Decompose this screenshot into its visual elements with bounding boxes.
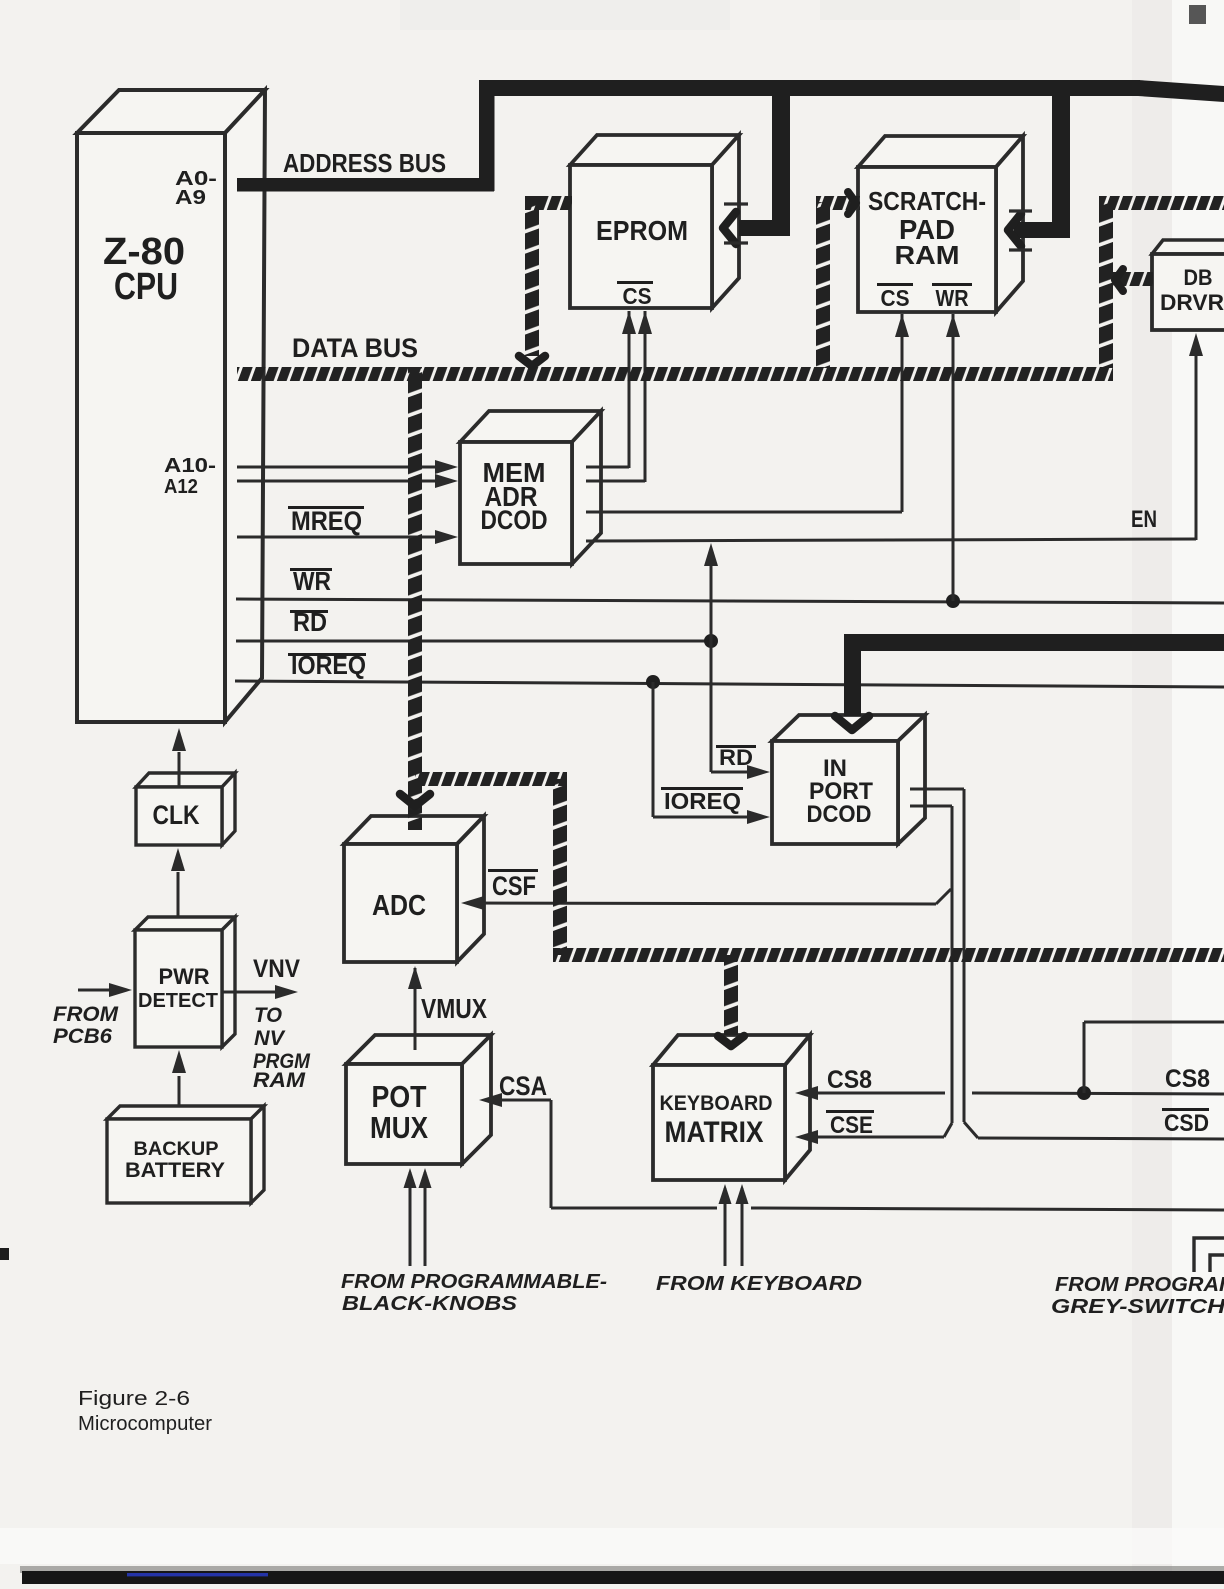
arrowhead RAM CS xyxy=(895,314,909,337)
wire MEM ADR DCOD out1 elbow xyxy=(586,466,629,469)
svg-text:BACKUP: BACKUP xyxy=(134,1139,219,1160)
arrowhead keyboard 2 xyxy=(736,1184,749,1204)
svg-text:FROM: FROM xyxy=(53,1003,119,1026)
wire IN PORT out2 xyxy=(910,805,952,808)
arrowhead RAM WR xyxy=(946,314,960,337)
wire IOREQ xyxy=(235,681,1224,687)
address bus thick segment from CPU xyxy=(237,178,494,192)
svg-text:RAM: RAM xyxy=(253,1069,306,1092)
arrowhead CSA into POT MUX xyxy=(479,1093,502,1107)
svg-text:RD: RD xyxy=(293,607,327,637)
scan smudge top 2 xyxy=(820,0,1020,20)
RAM entry tick lower xyxy=(1009,248,1032,251)
arrowhead into CLK bottom xyxy=(171,848,185,871)
wire from keyboard 2 xyxy=(741,1188,744,1266)
wire CS8 left of break xyxy=(800,1092,945,1095)
wire CS to SCRATCH-PAD RAM horizontal xyxy=(586,511,902,514)
wire EN horizontal xyxy=(586,539,1196,541)
hatched branch DB DRVR vertical xyxy=(1099,202,1113,368)
IO select bus drop xyxy=(844,634,861,716)
RAM entry tick upper xyxy=(1009,209,1032,212)
junction dot IOREQ to IN PORT DCOD xyxy=(646,675,660,689)
hatched branch KEYBOARD vertical xyxy=(724,955,738,1035)
svg-text:NV: NV xyxy=(254,1027,286,1050)
arrowhead into PWR DETECT bottom xyxy=(172,1050,186,1073)
svg-text:IOREQ: IOREQ xyxy=(291,650,366,680)
wire RD drop xyxy=(710,641,713,772)
hatched arrow into data bus from EPROM xyxy=(519,356,545,366)
wire CSE vertical xyxy=(951,806,954,1123)
EPROM entry tick upper xyxy=(724,202,748,205)
hatched elbow to lower bus horizontal xyxy=(415,772,567,786)
wire CSD to page edge xyxy=(978,1138,1224,1139)
svg-text:FROM KEYBOARD: FROM KEYBOARD xyxy=(656,1273,862,1295)
svg-text:DATA BUS: DATA BUS xyxy=(292,333,418,363)
svg-text:CS: CS xyxy=(881,285,910,311)
scan light band right edge xyxy=(1172,0,1224,1584)
svg-text:DETECT: DETECT xyxy=(138,990,218,1012)
svg-text:CSD: CSD xyxy=(1164,1110,1209,1137)
svg-text:RAM: RAM xyxy=(895,240,960,270)
svg-text:MATRIX: MATRIX xyxy=(665,1116,764,1149)
wire WR bus line xyxy=(236,599,1224,603)
address bus top run xyxy=(479,80,1140,96)
svg-text:WR: WR xyxy=(293,566,331,596)
block ADC xyxy=(344,816,484,844)
wire CSA horizontal left of keyboard lines xyxy=(551,1207,717,1210)
address bus branch down to RAM xyxy=(1052,92,1070,238)
IO select thick bus to IN PORT DCOD xyxy=(844,634,1224,651)
svg-text:EN: EN xyxy=(1131,506,1157,533)
arrowhead A10-A12 upper into MEM ADR DCOD xyxy=(435,460,458,474)
block Z-80 CPU xyxy=(77,90,265,133)
top right corner scan mark xyxy=(1189,5,1206,24)
address bus elbow into RAM xyxy=(1014,222,1070,238)
svg-text:BATTERY: BATTERY xyxy=(125,1159,225,1182)
left edge tick xyxy=(0,1248,9,1260)
EPROM entry tick lower xyxy=(724,241,748,244)
address bus top run tail (slight scan kink) xyxy=(1138,80,1224,102)
wire MREQ xyxy=(237,536,447,539)
svg-text:CSE: CSE xyxy=(830,1112,873,1139)
hatched branch RAM elbow xyxy=(816,196,860,210)
block CLK xyxy=(136,773,235,787)
wire FROM PCB6 xyxy=(78,989,122,992)
arrowhead keyboard 1 xyxy=(719,1184,732,1204)
svg-text:CSA: CSA xyxy=(499,1071,547,1101)
hatched branch RAM vertical xyxy=(816,202,830,368)
wire IN PORT out1 xyxy=(910,788,964,791)
thick arrow into SCRATCH-PAD RAM xyxy=(1008,214,1021,246)
junction dot RD to IN PORT DCOD xyxy=(704,634,718,648)
wire IOREQ drop xyxy=(652,682,655,817)
block DB DRVR (clipped at page edge) xyxy=(1152,240,1224,254)
wire VNV out xyxy=(222,991,288,994)
wire PWR DETECT to CLK xyxy=(177,872,180,917)
svg-text:CSF: CSF xyxy=(492,871,536,901)
svg-text:DCOD: DCOD xyxy=(481,505,548,535)
wire EPROM CS line outer xyxy=(644,311,647,482)
svg-text:BLACK-KNOBS: BLACK-KNOBS xyxy=(342,1293,518,1315)
wire CS to SCRATCH-PAD RAM vertical xyxy=(901,314,904,512)
arrowhead knobs 2 xyxy=(419,1168,432,1188)
wire A10-A12 lower xyxy=(237,480,447,483)
hatched branch ADC vertical xyxy=(408,367,422,830)
svg-text:PCB6: PCB6 xyxy=(53,1025,112,1048)
wire CLK to CPU xyxy=(178,752,181,786)
arrowhead A10-A12 lower into MEM ADR DCOD xyxy=(435,474,458,488)
svg-text:CS: CS xyxy=(623,283,652,309)
wire CSE to KEYBOARD xyxy=(800,1136,944,1139)
hatched arrow into KEYBOARD MATRIX xyxy=(718,1036,744,1046)
wire CS8 right of break xyxy=(972,1093,1224,1094)
svg-text:EPROM: EPROM xyxy=(596,215,688,246)
data bus from CPU (hatched) xyxy=(237,367,1113,381)
wire EPROM CS line inner xyxy=(628,311,631,468)
svg-text:TO: TO xyxy=(254,1004,282,1027)
hatched elbow to lower bus vertical xyxy=(553,779,567,955)
block KEYBOARD MATRIX xyxy=(653,1035,810,1065)
wire CSE flare xyxy=(944,1123,952,1137)
svg-text:WR: WR xyxy=(936,285,969,311)
wire CSF jog diagonal xyxy=(936,889,951,904)
wire RD xyxy=(236,640,712,643)
scan bar bottom xyxy=(22,1571,1224,1584)
arrowhead IOREQ into IN PORT DCOD xyxy=(747,810,770,824)
svg-text:A12: A12 xyxy=(164,476,198,498)
arrowhead MREQ into MEM ADR DCOD xyxy=(435,530,458,544)
arrowhead RD riser up xyxy=(704,543,718,566)
wire CSA into POT MUX xyxy=(484,1099,551,1102)
wire CS8 branch to page edge xyxy=(1084,1021,1224,1024)
svg-text:MUX: MUX xyxy=(370,1110,428,1145)
wire RD into IN PORT DCOD xyxy=(711,771,760,774)
block BACKUP BATTERY xyxy=(107,1106,264,1119)
arrowhead EN into DB DRVR xyxy=(1189,333,1203,356)
wire A10-A12 upper xyxy=(237,466,447,469)
lower data bus (hatched) to page edge xyxy=(553,948,1224,962)
svg-text:A10-: A10- xyxy=(164,455,216,477)
svg-text:GREY-SWITCH: GREY-SWITCH xyxy=(1051,1296,1224,1318)
blue artifact line xyxy=(127,1573,268,1576)
address bus vertical riser xyxy=(479,80,495,191)
arrowhead CS8 into KEYBOARD xyxy=(795,1086,818,1100)
arrowhead RD into IN PORT DCOD xyxy=(747,765,770,779)
thick arrow into IN PORT DCOD xyxy=(835,716,869,730)
svg-text:ADC: ADC xyxy=(372,890,426,922)
wire from black knobs 2 xyxy=(424,1172,427,1266)
arrowhead EPROM CS inner xyxy=(622,311,636,334)
hatched arrow into SCRATCH-PAD RAM xyxy=(848,192,856,214)
scan shadow band right xyxy=(1132,0,1172,1584)
block SCRATCH-PAD RAM xyxy=(858,136,1023,167)
svg-text:VMUX: VMUX xyxy=(421,993,487,1024)
hatched branch EPROM elbow xyxy=(525,196,572,210)
svg-text:ADDRESS BUS: ADDRESS BUS xyxy=(283,148,446,178)
svg-text:IOREQ: IOREQ xyxy=(664,788,741,814)
wire CSF horizontal xyxy=(466,903,936,904)
wire CSA vertical xyxy=(550,1100,553,1208)
wire IOREQ into IN PORT DCOD xyxy=(653,816,760,819)
arrowhead knobs 1 xyxy=(404,1168,417,1188)
svg-text:FROM PROGRAMMABLE-: FROM PROGRAMMABLE- xyxy=(341,1271,607,1293)
wire CS8 branch vertical xyxy=(1083,1022,1086,1093)
svg-text:DCOD: DCOD xyxy=(807,801,872,828)
svg-text:KEYBOARD: KEYBOARD xyxy=(660,1092,773,1115)
svg-text:MREQ: MREQ xyxy=(291,506,362,536)
hatched branch EPROM vertical xyxy=(525,196,539,356)
block PWR DETECT xyxy=(135,917,235,930)
address bus elbow into EPROM xyxy=(739,220,790,236)
svg-text:CS8: CS8 xyxy=(1165,1065,1210,1093)
svg-text:SCRATCH-: SCRATCH- xyxy=(868,186,986,216)
hatched arrow into ADC xyxy=(400,794,430,806)
arrowhead CSE into KEYBOARD xyxy=(795,1130,818,1144)
svg-text:DRVR: DRVR xyxy=(1160,290,1224,315)
bright strip above bottom bar xyxy=(0,1528,1224,1564)
scan smudge top xyxy=(400,0,730,30)
arrowhead EPROM CS outer xyxy=(638,311,652,334)
junction dot CS8 branch xyxy=(1077,1086,1091,1100)
svg-text:A9: A9 xyxy=(175,187,206,209)
block EPROM xyxy=(570,135,739,165)
wire VMUX xyxy=(414,968,417,1050)
arrowhead into CPU bottom xyxy=(172,728,186,751)
hatched branch DB DRVR top elbow xyxy=(1099,196,1224,210)
wire EN vertical xyxy=(1195,344,1198,540)
scan bar soft top xyxy=(20,1566,1224,1573)
junction dot WR to SCRATCH-PAD RAM xyxy=(946,594,960,608)
svg-text:VNV: VNV xyxy=(253,955,300,983)
wire RD riser xyxy=(710,556,713,641)
svg-text:CPU: CPU xyxy=(114,266,178,308)
wire from keyboard 1 xyxy=(724,1188,727,1266)
arrowhead VNV xyxy=(275,985,298,999)
address bus branch down to EPROM xyxy=(772,92,790,236)
wire CSA horizontal to page edge xyxy=(751,1208,1224,1210)
hatched branch DB DRVR to box xyxy=(1113,272,1153,286)
svg-text:FROM PROGRAI: FROM PROGRAI xyxy=(1055,1274,1224,1296)
svg-text:RD: RD xyxy=(719,745,753,770)
block IN PORT DCOD xyxy=(772,715,925,741)
block POT MUX xyxy=(346,1035,491,1064)
wire CSD flare xyxy=(964,1122,978,1138)
thick arrow into EPROM xyxy=(723,212,736,244)
off-page block corner outer xyxy=(1194,1238,1224,1272)
svg-text:PWR: PWR xyxy=(159,964,210,989)
arrowhead VMUX into ADC xyxy=(408,966,422,989)
wire CSD vertical xyxy=(963,789,966,1122)
wire WR to SCRATCH-PAD RAM vertical xyxy=(952,314,955,601)
block MEM ADR DCOD xyxy=(460,411,601,442)
svg-text:CLK: CLK xyxy=(153,800,200,830)
svg-text:DB: DB xyxy=(1184,265,1213,290)
arrowhead FROM PCB6 into PWR DETECT xyxy=(109,983,132,997)
off-page block corner inner xyxy=(1210,1255,1224,1272)
svg-text:POT: POT xyxy=(372,1079,427,1114)
hatched arrow from DB DRVR into bus xyxy=(1115,269,1123,291)
svg-text:Microcomputer: Microcomputer xyxy=(78,1413,212,1435)
wire from black knobs 1 xyxy=(409,1172,412,1266)
wire BATTERY to PWR DETECT xyxy=(178,1076,181,1107)
svg-text:Figure 2-6: Figure 2-6 xyxy=(78,1388,190,1410)
arrowhead CSF into ADC xyxy=(461,896,484,910)
wire MEM ADR DCOD out2 elbow xyxy=(586,480,645,483)
svg-text:CS8: CS8 xyxy=(827,1066,872,1094)
